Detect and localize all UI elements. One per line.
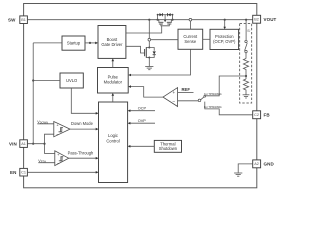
svg-text:FB: FB xyxy=(264,113,271,118)
svg-text:−: − xyxy=(172,100,175,105)
wire BGD to NMOS gate xyxy=(126,46,145,53)
wire bulk connection xyxy=(164,15,166,20)
block Thermal Shutdown xyxy=(154,140,181,152)
wire VOUT down to internal divider switch xyxy=(245,20,247,41)
wire UVLO to VIN rail xyxy=(33,80,60,82)
svg-text:B2: B2 xyxy=(254,18,259,22)
svg-text:Sense: Sense xyxy=(184,39,196,44)
op-amp U1 error amplifier xyxy=(163,88,178,107)
wire Startup to Boost Gate Driver xyxy=(85,42,97,44)
svg-text:Startup: Startup xyxy=(67,41,81,46)
svg-text:+: + xyxy=(172,90,175,95)
svg-text:C1: C1 xyxy=(21,171,26,175)
node VIN rail / UVLO tap xyxy=(32,79,34,81)
wire VIN pin to rail xyxy=(27,143,44,145)
comparator Pass-Through xyxy=(55,151,69,166)
hysteresis symbol xyxy=(59,128,64,132)
ground below Q1 xyxy=(145,67,153,70)
wire Pulse Modulator to Boost Gate Driver xyxy=(112,60,114,68)
wire BGD to PMOS gates xyxy=(126,26,162,33)
svg-text:C2: C2 xyxy=(254,113,259,117)
svg-text:B1: B1 xyxy=(21,18,26,22)
wire SW net (top rail to VOUT) xyxy=(28,19,253,21)
node VOUT line / current sense (open circle) xyxy=(189,18,192,21)
pin GND (A1) xyxy=(253,160,275,168)
wire error amp output to Pulse Modulator xyxy=(129,87,163,98)
svg-text:For TPS61099x: For TPS61099x xyxy=(204,92,222,96)
wire + input to VIN rail xyxy=(45,153,55,155)
block Boost Gate Driver xyxy=(98,26,126,59)
PMOS channel and gate bars xyxy=(158,22,171,24)
block Current Sense xyxy=(178,29,203,49)
svg-text:Gate Driver: Gate Driver xyxy=(101,42,123,47)
node on startup wire xyxy=(89,42,91,44)
svg-text:Pass-Through: Pass-Through xyxy=(68,150,94,155)
transistor Q1 low-side NMOS xyxy=(145,47,151,59)
wire Q1 source to ground xyxy=(148,58,150,67)
wire Current Sense top to VOUT line xyxy=(189,21,191,29)
chip outline xyxy=(24,4,257,188)
block Pulse Modulator xyxy=(98,68,129,94)
svg-text:VIN: VIN xyxy=(9,142,17,147)
wire UVLO output to Logic Control xyxy=(71,88,97,113)
wire switch node down to NMOS drain xyxy=(148,41,150,48)
transistor Q2/Q3 back-to-back PMOS isolation switch xyxy=(157,14,174,21)
switch internal divider connect xyxy=(245,40,247,42)
svg-text:Down Mode: Down Mode xyxy=(71,121,94,126)
ground internal divider xyxy=(243,95,250,98)
ground symbol xyxy=(234,173,242,176)
wire OVP stub to Logic Control xyxy=(130,122,155,124)
block Logic Control xyxy=(99,102,128,183)
wire Current Sense to Protection xyxy=(203,38,210,40)
node FB tap xyxy=(245,71,247,80)
svg-text:Shutdown: Shutdown xyxy=(159,146,178,151)
wire GND pin to ground xyxy=(238,164,253,173)
svg-text:REF: REF xyxy=(182,87,191,92)
node VOUT line / protection tap xyxy=(224,19,226,21)
svg-text:SW: SW xyxy=(8,18,16,23)
wire Pass-Through output to Logic Control xyxy=(69,157,98,159)
wire - input to VIN rail xyxy=(45,134,54,153)
svg-text:A2: A2 xyxy=(254,162,259,166)
pin VOUT (B2) xyxy=(253,15,277,23)
dashed box internal feedback divider xyxy=(240,24,252,104)
svg-text:VOUT: VOUT xyxy=(264,17,277,22)
wire Startup to VIN rail xyxy=(33,42,62,44)
node VOUT line / divider tap xyxy=(245,19,247,21)
svg-text:(OCP, OVP): (OCP, OVP) xyxy=(213,39,236,44)
node VIN sense rail xyxy=(43,143,45,145)
svg-text:A1: A1 xyxy=(21,142,26,146)
block Protection (OCP, OVP) xyxy=(210,29,239,49)
wire OCP stub to Logic Control xyxy=(130,110,155,112)
wire REF to + input xyxy=(178,91,194,93)
wire VPTH stub to - input xyxy=(38,162,55,164)
wire Down Mode output to Logic Control xyxy=(70,128,97,130)
wire FB tap to selector upper throw xyxy=(205,76,246,96)
pin EN (C1) xyxy=(10,168,27,176)
block Startup xyxy=(62,36,85,50)
wire EN to Logic Control xyxy=(27,171,97,173)
pin VIN (A2) xyxy=(9,140,27,148)
svg-text:UVLO: UVLO xyxy=(66,78,78,83)
diode body diode right xyxy=(168,13,171,16)
switch FB selector xyxy=(198,99,201,102)
diode body diode left xyxy=(159,13,162,16)
resistor R2 internal divider bottom xyxy=(243,79,248,95)
svg-text:For TPS61099x: For TPS61099x xyxy=(204,105,222,109)
block UVLO xyxy=(60,73,83,88)
wire error amp - input to selector pole xyxy=(178,100,199,102)
node VIN rail / VIN wire xyxy=(32,143,34,145)
node SW switch node (open circle) xyxy=(148,38,151,41)
node SW line to NMOS branch xyxy=(148,19,150,21)
wire Thermal Shutdown to Logic Control xyxy=(130,145,155,147)
svg-text:Control: Control xyxy=(106,138,119,143)
wire VOUT to Protection xyxy=(224,20,226,28)
pin FB (C2) xyxy=(253,111,271,119)
svg-text:GND: GND xyxy=(264,161,275,166)
wire selector lower throw to FB pin xyxy=(205,102,253,115)
svg-text:OVP: OVP xyxy=(138,119,146,123)
wire Logic Control to Pulse Modulator xyxy=(112,94,114,102)
wire Current Sense output to Pulse Modulator xyxy=(129,49,190,75)
wire VDOWN stub to + input xyxy=(37,123,54,125)
svg-text:EN: EN xyxy=(10,170,16,175)
pin SW (B1) xyxy=(8,16,27,24)
wire VIN internal rail xyxy=(32,43,34,144)
svg-text:Modulator: Modulator xyxy=(104,80,123,85)
wire PMOS gate tie xyxy=(161,24,169,26)
svg-text:OCP: OCP xyxy=(138,106,147,110)
wire SW down to switch node xyxy=(148,20,150,39)
diode body diode of Q1 xyxy=(149,48,156,58)
hysteresis symbol xyxy=(59,157,64,161)
resistor R1 internal divider top xyxy=(245,53,247,59)
comparator Down Mode xyxy=(54,122,70,137)
wire switch node to Current Sense xyxy=(151,39,178,41)
svg-text:(1): (1) xyxy=(247,28,250,32)
